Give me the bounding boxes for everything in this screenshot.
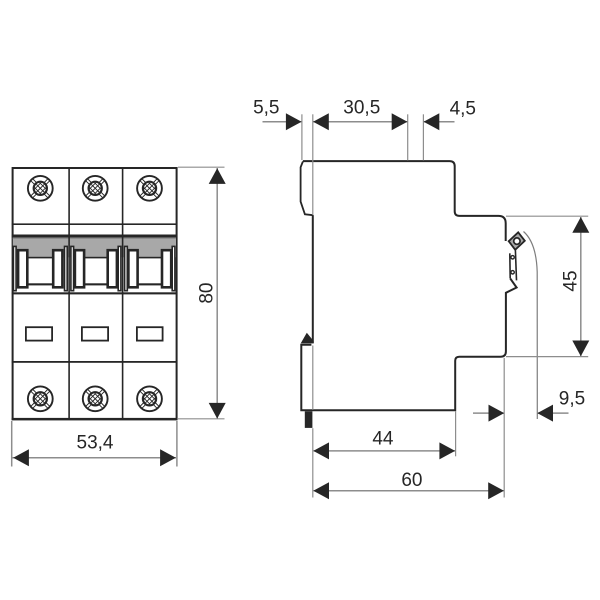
svg-text:30,5: 30,5 xyxy=(343,98,380,119)
pole 3 left narrow strip xyxy=(125,246,128,290)
svg-text:60: 60 xyxy=(401,470,422,491)
svg-text:9,5: 9,5 xyxy=(559,388,585,409)
clip rivet circle 1 xyxy=(511,256,514,259)
ext line right step to 60 dim xyxy=(503,358,505,498)
pole 3 toggle recess xyxy=(138,257,162,293)
front view bottom edge xyxy=(12,418,178,420)
dim 44 left arrow xyxy=(313,442,329,459)
dim 9,5 right leader xyxy=(538,412,569,414)
dim 45 bottom arrow xyxy=(572,341,589,357)
pole 1 right toggle tab xyxy=(53,250,62,287)
ext line clip body boundary xyxy=(312,346,314,410)
pole 1 right narrow strip xyxy=(65,246,68,290)
dim 53,4 left arrow xyxy=(13,449,29,466)
svg-text:4,5: 4,5 xyxy=(450,98,476,119)
ext line lip left xyxy=(301,114,303,160)
svg-text:44: 44 xyxy=(372,429,394,450)
ext line main left edge xyxy=(312,114,314,215)
dim 45 top leader xyxy=(506,215,588,217)
dim 80 dimension line xyxy=(216,168,218,418)
toggle gray band darker top stripe xyxy=(13,238,176,239)
dim 44 dimension line xyxy=(314,450,455,452)
dim 53,4 left extension line xyxy=(11,421,13,467)
side view body outline xyxy=(301,161,516,410)
dim 4,5 leader line xyxy=(424,121,455,123)
screw terminal top pole 1 xyxy=(28,176,53,201)
toggle gray band xyxy=(13,236,176,257)
screw terminal top pole 2 xyxy=(83,176,108,201)
svg-text:80: 80 xyxy=(197,283,218,304)
dim 53,4 right arrow xyxy=(160,449,176,466)
ext line top face feature a xyxy=(407,114,409,160)
dim 53,4 dimension line xyxy=(13,457,177,459)
pole 2 right narrow strip xyxy=(118,246,121,290)
dim 53,4 right extension line xyxy=(176,421,178,467)
screw terminal top pole 3 xyxy=(137,176,162,201)
screw terminal bottom pole 3 xyxy=(137,386,162,411)
dim 80 top arrow xyxy=(209,168,226,184)
svg-text:53,4: 53,4 xyxy=(77,432,114,453)
dim 9,5 left leader xyxy=(473,412,504,414)
dim 4,5 outside arrow xyxy=(424,113,440,130)
pole 3 left toggle tab xyxy=(128,250,137,287)
rail clip screw diamond xyxy=(509,232,525,250)
ext line top face feature b xyxy=(422,114,424,160)
pole 1 left toggle tab xyxy=(18,250,27,287)
front view body outline xyxy=(13,168,177,419)
ext line lower right corner 44 xyxy=(455,411,457,456)
screw terminal bottom pole 1 xyxy=(28,386,53,411)
clip spring strip left edge xyxy=(509,253,511,278)
dim 9,5 left arrow xyxy=(489,405,505,422)
dim 30,5 right arrow xyxy=(392,113,408,130)
line above bottom screw section xyxy=(12,361,177,363)
pole 3 right toggle tab xyxy=(162,250,171,287)
pole 3 window xyxy=(137,327,163,340)
dim 45 dimension line xyxy=(580,217,582,356)
DIN clip bottom tab xyxy=(305,411,313,428)
pole 2 right toggle tab xyxy=(108,250,117,287)
dim 30,5 left arrow xyxy=(313,113,329,130)
dim 30,5 dimension line xyxy=(313,121,408,123)
pole divider 1 xyxy=(68,168,70,419)
pole 3 right narrow strip xyxy=(172,246,175,290)
pole 2 toggle recess xyxy=(84,257,107,293)
horizontal line below top screw section xyxy=(12,223,177,225)
rail clip screw hole xyxy=(514,238,520,244)
dim 60 dimension line xyxy=(314,490,504,492)
thick line at top of toggle band xyxy=(12,235,177,238)
side view top-left lip xyxy=(301,162,313,216)
dim 45 top arrow xyxy=(572,217,589,233)
dim 80 bottom extension line xyxy=(178,418,225,420)
svg-text:45: 45 xyxy=(561,270,582,291)
pole 1 left narrow strip xyxy=(13,246,16,290)
side view main left edge xyxy=(312,215,314,343)
clip spring strip right edge xyxy=(515,250,516,280)
screw terminal bottom pole 2 xyxy=(83,386,108,411)
pole 1 window xyxy=(26,327,52,340)
pole 2 window xyxy=(82,327,108,340)
clip swing arc xyxy=(524,232,538,420)
DIN clip hook wedge xyxy=(301,333,314,344)
svg-text:5,5: 5,5 xyxy=(253,97,279,118)
line at bottom of toggle area xyxy=(12,292,177,294)
pole divider 2 xyxy=(122,168,124,419)
pole 1 toggle recess xyxy=(28,257,53,293)
dim 60 right arrow xyxy=(488,482,504,499)
clip rivet circle 2 xyxy=(511,271,514,274)
dim 5,5 outside arrow xyxy=(286,113,302,130)
dim 45 bottom leader xyxy=(506,356,588,358)
dim 5,5 leader line xyxy=(263,121,302,123)
dim 80 top extension line xyxy=(178,166,225,168)
dim 9,5 right arrow xyxy=(537,405,553,422)
dim 44 right arrow xyxy=(439,442,455,459)
pole 2 left narrow strip xyxy=(71,246,74,290)
dim 60 left arrow xyxy=(313,482,329,499)
ext line below tab to 60 dim xyxy=(312,428,314,497)
pole 2 left toggle tab xyxy=(75,250,84,287)
dim 80 bottom arrow xyxy=(209,403,226,419)
